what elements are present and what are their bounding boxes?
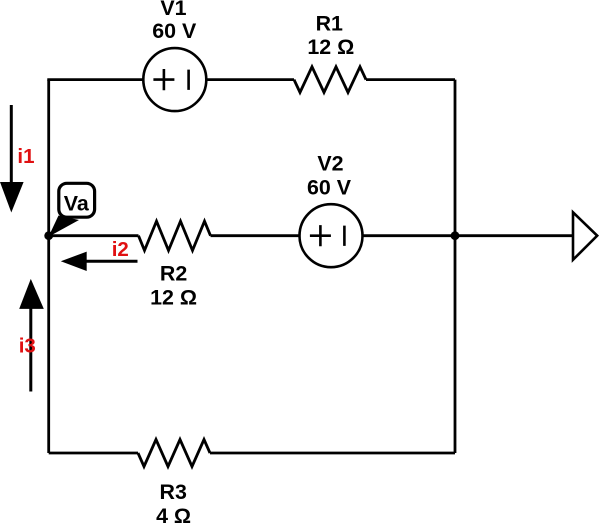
svg-text:V2: V2 xyxy=(317,152,343,176)
svg-text:i3: i3 xyxy=(19,335,36,358)
resistor R1 xyxy=(294,67,366,93)
wire top right segment xyxy=(366,78,455,81)
svg-text:V1: V1 xyxy=(160,0,186,20)
Va callout box xyxy=(59,183,95,217)
output terminal triangle xyxy=(573,212,597,259)
wire top between V1 and R1 xyxy=(206,78,294,81)
wire right vertical xyxy=(454,80,457,453)
wire bottom left segment xyxy=(49,452,138,455)
svg-text:12 Ω: 12 Ω xyxy=(307,35,354,59)
resistor R2 xyxy=(139,221,211,250)
resistor R3 xyxy=(138,440,210,467)
svg-text:60 V: 60 V xyxy=(307,176,352,200)
wire left vertical xyxy=(47,80,50,453)
svg-text:R3: R3 xyxy=(160,480,187,504)
svg-text:R2: R2 xyxy=(160,262,187,286)
svg-text:60 V: 60 V xyxy=(152,19,197,43)
wire bottom right segment xyxy=(210,452,455,455)
svg-text:i1: i1 xyxy=(17,145,34,168)
svg-text:12 Ω: 12 Ω xyxy=(150,285,197,309)
svg-text:R1: R1 xyxy=(316,11,343,35)
node Va dot xyxy=(44,231,53,240)
current arrow i1 xyxy=(0,105,24,213)
svg-text:i2: i2 xyxy=(112,238,129,261)
current arrow i3 xyxy=(19,279,44,392)
voltage source V1 xyxy=(143,48,206,111)
wire top left segment xyxy=(47,78,143,81)
wire middle right to output xyxy=(363,234,574,237)
wire middle between R2 and V2 xyxy=(211,234,300,237)
wire middle left segment xyxy=(49,234,139,237)
svg-text:4 Ω: 4 Ω xyxy=(156,504,191,523)
Va callout tail xyxy=(49,216,80,237)
voltage source V2 xyxy=(300,204,363,267)
node right junction dot xyxy=(451,231,460,240)
svg-text:Va: Va xyxy=(64,192,90,216)
current arrow i2 xyxy=(61,252,138,271)
